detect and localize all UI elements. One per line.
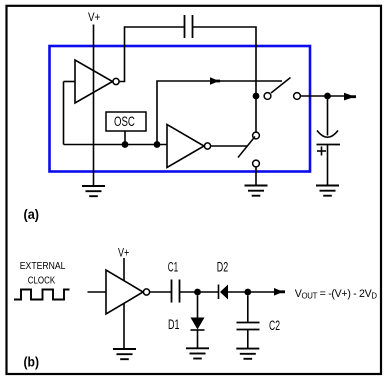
wire V+ lead (circuit b) (123, 258, 125, 281)
capacitor Cout curved plate (317, 131, 338, 138)
svg-text:V+: V+ (88, 10, 100, 24)
capacitor C2 (237, 295, 260, 348)
node (D2/C2/out) (244, 289, 251, 296)
wire S2 upper contact to node (255, 96, 257, 132)
diode D1 (191, 295, 205, 348)
ground (below S2) (245, 186, 268, 196)
label + (polarity) (317, 147, 326, 156)
node (OSC to bus) (122, 141, 129, 148)
wire U2 output to capacitor C (119, 27, 184, 82)
wire U2 input (64, 81, 76, 83)
ground (below D1) (186, 348, 209, 358)
switch S1 arm (271, 78, 291, 94)
wire U4 output to C1 (150, 291, 172, 293)
capacitor C1 (172, 280, 180, 303)
svg-text:D2: D2 (217, 259, 228, 274)
svg-text:D1: D1 (168, 317, 180, 332)
svg-text:OSC: OSC (114, 113, 135, 129)
capacitor Cout straight plate (317, 144, 341, 146)
capacitor C (pump cap, top) (185, 15, 193, 38)
switch S1 left contact (264, 93, 271, 100)
arrow (clock drive) (210, 77, 220, 85)
switch S1 right contact (294, 93, 301, 100)
arrow (output a) (344, 93, 356, 101)
wire V+ rail (circuit a) (93, 25, 95, 187)
wire D2 to output node (228, 291, 275, 293)
wire S2 lower contact to ground (255, 167, 257, 186)
wire external clock input (88, 291, 107, 293)
inverter U3 (lower triangle) (167, 125, 204, 168)
svg-text:C1: C1 (168, 259, 178, 274)
IC boundary box U1 (50, 46, 311, 172)
svg-text:EXTERNAL: EXTERNAL (20, 260, 66, 272)
wire feedback left vertical (63, 82, 65, 145)
wire C1 to node (180, 291, 219, 293)
wire oscillator bus (64, 144, 168, 146)
diode D2 (219, 285, 229, 300)
node (output) (324, 93, 331, 100)
svg-text:V+: V+ (118, 248, 130, 260)
oscillator OSC (106, 112, 146, 131)
wire OSC output stub (124, 131, 126, 145)
ground (below V+ rail) (82, 186, 105, 196)
svg-text:C2: C2 (269, 318, 280, 333)
wire U4 to ground (123, 304, 125, 350)
switch S2 lower contact (253, 160, 260, 167)
svg-text:CLOCK: CLOCK (28, 274, 56, 286)
clock waveform (14, 290, 70, 300)
arrow (output b) (274, 288, 285, 296)
node (C1/D1/D2) (194, 289, 201, 296)
switch S2 arm (238, 137, 255, 158)
svg-text:(b): (b) (24, 354, 40, 370)
wire output (328, 95, 346, 97)
wire clock drive line to switch S1 (157, 81, 282, 145)
node (pump cap / switches) (253, 93, 260, 100)
svg-text:(a): (a) (24, 206, 40, 222)
wire U3 output (211, 145, 247, 147)
ground (below C2) (236, 349, 259, 359)
switch S2 upper contact (253, 132, 260, 139)
wire capacitor C right to switch node (193, 27, 257, 96)
node (bus to clock line) (154, 141, 161, 148)
inverter U4 (circuit b) (106, 270, 143, 314)
ground (below Cout) (316, 186, 339, 196)
wire Cout to ground (327, 145, 329, 186)
ground (below U4) (113, 349, 136, 359)
wire S1 to output node (300, 95, 327, 97)
inverter U2 (upper-left triangle) (75, 60, 113, 103)
capacitor Cout top lead (327, 96, 329, 136)
